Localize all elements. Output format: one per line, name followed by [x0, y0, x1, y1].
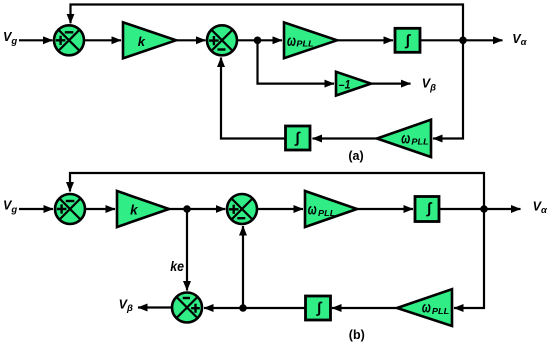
wire top feedback (a) from output node to summer S1a: [71, 5, 464, 41]
node after S2a: [254, 37, 262, 45]
wire bottom feedback right (a): [433, 40, 463, 138]
wire bottom feedback right (b): [454, 209, 484, 308]
wire wPLL feedback to integrator feedback (b): [332, 307, 397, 309]
wire Vg input (a): [19, 39, 53, 41]
svg-text:PLL: PLL: [296, 38, 313, 48]
wire Vg input (b): [19, 208, 53, 210]
svg-text:PLL: PLL: [411, 137, 428, 147]
gain block k (a): [123, 22, 176, 58]
svg-text:ω: ω: [308, 202, 317, 219]
summer S1a: [54, 25, 84, 55]
wire gain k to summer S2a: [176, 39, 206, 41]
wire S1b to gain k (b): [86, 208, 116, 210]
wire gain k to summer S2b: [169, 208, 225, 210]
wPLL block (a) forward: [284, 22, 337, 58]
svg-text:Vα: Vα: [533, 200, 548, 216]
svg-text:Vg: Vg: [3, 198, 17, 215]
integrator block (b) forward: [415, 197, 439, 222]
wire wPLL to integrator (a): [337, 39, 393, 41]
svg-text:ω: ω: [287, 33, 296, 50]
node after gain k (b): [183, 205, 191, 213]
summer S3b: [172, 293, 202, 323]
wire S2b to wPLL (b): [257, 208, 303, 210]
svg-text:–1: –1: [339, 78, 351, 92]
integrator block feedback (b): [306, 296, 331, 320]
svg-text:Vg: Vg: [3, 30, 17, 47]
summer S2a: [207, 25, 237, 55]
wire S2a to wPLL block (a): [237, 39, 282, 41]
wire wPLL to integrator (b): [357, 208, 413, 210]
svg-text:ω: ω: [422, 300, 431, 317]
svg-text:(a): (a): [348, 149, 363, 163]
svg-text:PLL: PLL: [318, 208, 335, 218]
wire wPLL feedback to integrator feedback (a): [313, 137, 378, 139]
wire integrator feedback to summer S3b: [204, 307, 306, 309]
node on bottom feedback (b): [239, 304, 247, 312]
wire integrator feedback to S2a bottom input: [221, 58, 286, 139]
wire S1a to gain k (a): [84, 39, 121, 41]
svg-text:ke: ke: [170, 259, 184, 274]
svg-text:PLL: PLL: [432, 306, 449, 316]
gain block k (b): [117, 191, 169, 227]
wPLL block feedback (a): [377, 120, 431, 157]
svg-text:(b): (b): [349, 328, 365, 342]
node at Valpha branch (b): [480, 205, 488, 213]
-1 gain block (a): [336, 72, 371, 96]
wire integrator to Valpha (b): [439, 208, 521, 210]
wire ke branch (b): [186, 209, 188, 291]
wPLL block feedback (b): [397, 289, 452, 326]
wire integrator to Valpha output (a): [420, 39, 503, 41]
integrator block feedback (a): [286, 126, 311, 150]
wire top feedback (b): [70, 173, 484, 209]
svg-text:Vα: Vα: [512, 32, 527, 48]
wire -1 block to Vbeta (a): [371, 82, 411, 84]
summer S1b: [55, 194, 85, 224]
wire node to S2b bottom input (b): [242, 226, 244, 308]
summer S2b: [227, 194, 257, 224]
integrator block (a) forward: [395, 28, 420, 52]
wire Vbeta branch (a): [258, 40, 335, 83]
wire S3b to Vbeta (b): [138, 306, 172, 308]
svg-text:ω: ω: [401, 130, 410, 147]
wPLL block (b) forward: [305, 191, 357, 227]
svg-text:Vβ: Vβ: [119, 297, 133, 314]
node at Valpha branch (a): [459, 37, 467, 45]
svg-text:k: k: [138, 34, 146, 49]
svg-text:Vβ: Vβ: [422, 77, 436, 94]
